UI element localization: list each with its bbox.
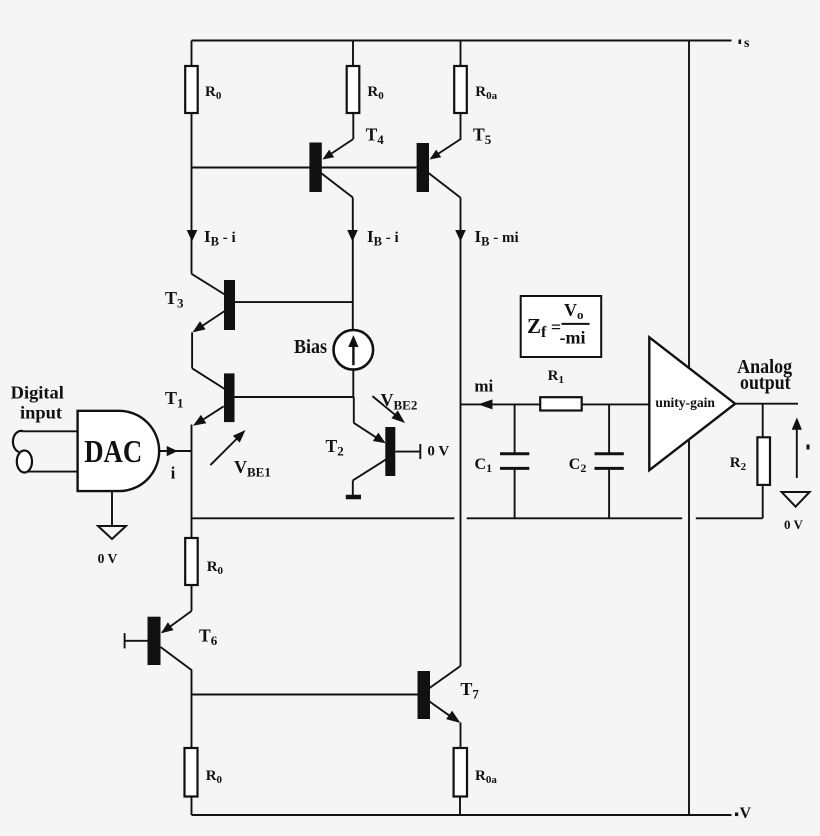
svg-text:s: s xyxy=(744,36,750,51)
svg-text:DAC: DAC xyxy=(84,433,142,469)
svg-text:i: i xyxy=(171,463,176,482)
svg-text:unity-gain: unity-gain xyxy=(655,395,715,410)
svg-text:output: output xyxy=(740,373,791,394)
svg-text:mi: mi xyxy=(474,377,493,396)
svg-text:0 V: 0 V xyxy=(784,517,804,532)
svg-text:0 V: 0 V xyxy=(427,444,449,460)
svg-text:0 V: 0 V xyxy=(98,551,118,566)
svg-text:-mi: -mi xyxy=(560,328,586,348)
svg-text:Bias: Bias xyxy=(294,337,327,358)
svg-text:IB - i: IB - i xyxy=(367,227,399,249)
svg-text:IB - i: IB - i xyxy=(204,227,236,249)
svg-text:input: input xyxy=(20,403,62,423)
svg-text:IB - mi: IB - mi xyxy=(475,227,519,249)
svg-text:V: V xyxy=(740,805,752,822)
svg-text:Digital: Digital xyxy=(11,383,64,403)
